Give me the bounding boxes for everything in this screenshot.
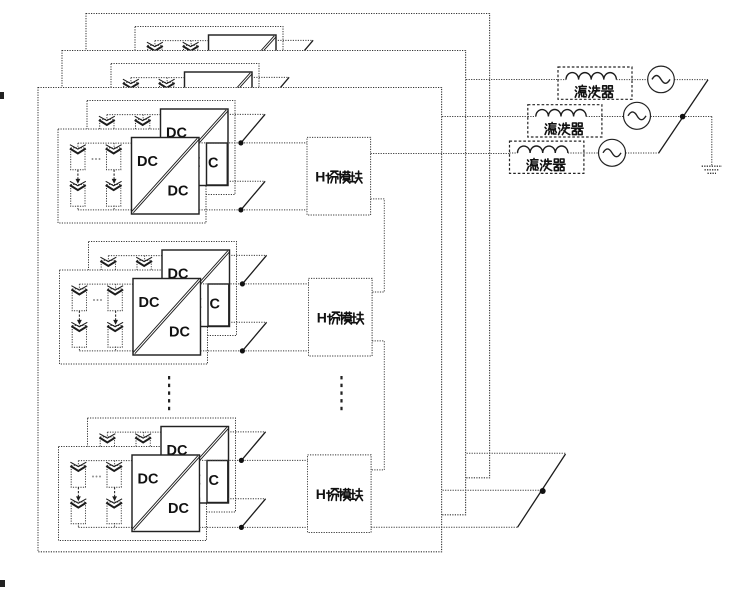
neutral diagonal top [659,80,709,153]
inductor [518,146,568,153]
node junction top [680,114,686,120]
edge speck bottom [0,580,5,587]
wire filter1 to source1 [632,79,708,81]
inductor [566,73,616,80]
node junction bottom [540,488,546,494]
AC source [648,66,675,93]
wire filter3 to source3 [584,152,659,154]
neutral diagonal bottom [518,454,566,527]
middle phase layer [62,51,542,515]
AC source [599,139,626,166]
ground [702,165,722,167]
filter box 滤波器 [558,67,632,99]
inductor [536,110,586,117]
filter box 滤波器 [528,105,602,137]
wire filter2 to source2 and to ground [602,117,712,166]
AC source [624,102,651,129]
filter box 滤波器 [510,141,584,173]
edge speck top [0,92,4,99]
front phase layer [38,88,518,552]
back phase layer [86,14,566,478]
